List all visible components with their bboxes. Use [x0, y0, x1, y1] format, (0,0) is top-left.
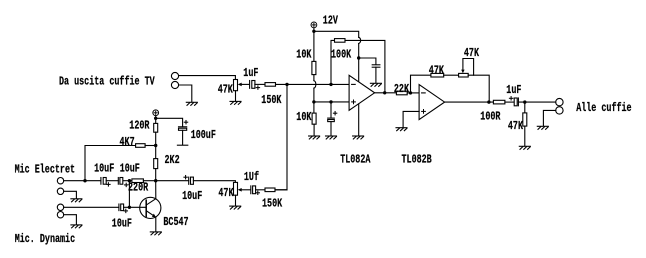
- wire C3 to ground: [330, 122, 332, 136]
- connector J1 (Da uscita cuffie TV, ground pin): [171, 81, 178, 88]
- wire P2 bottom to ground: [235, 195, 237, 205]
- node base-line top junction: [128, 179, 131, 182]
- svg-text:10uF: 10uF: [112, 217, 132, 231]
- capacitor C3 plates: [328, 117, 335, 119]
- ground (TV input): [186, 102, 197, 105]
- svg-text:220R: 220R: [128, 181, 149, 195]
- op-amp U1B plus sign: [422, 110, 426, 114]
- svg-text:47K: 47K: [429, 64, 445, 78]
- op-amp U1B TL082B triangle: [419, 85, 445, 120]
- wire hop exit to +ref node: [313, 88, 315, 102]
- connector J2 (Mic Electret, ground pin): [57, 188, 63, 194]
- svg-text:Mic. Dynamic: Mic. Dynamic: [15, 233, 75, 247]
- wire U1B non-inverting input to ground: [403, 111, 419, 127]
- svg-text:22K: 22K: [394, 83, 410, 97]
- ground (Q1 emitter): [150, 232, 161, 235]
- capacitor C1 1uF box plate: [252, 81, 255, 89]
- wire base drop: [128, 181, 130, 208]
- svg-text:1Uf: 1Uf: [244, 171, 259, 185]
- resistor R12 220R body: [132, 179, 144, 183]
- resistor R1 150K body: [265, 83, 276, 87]
- capacitor C2 decoupling plates: [372, 64, 380, 66]
- wire J2 ground pin down: [64, 191, 77, 198]
- svg-text:12V: 12V: [323, 14, 339, 28]
- node output junction: [523, 100, 526, 103]
- capacitor C6 box plate: [103, 178, 106, 185]
- wire summing node down to mic channel: [275, 84, 287, 189]
- capacitor C6 10uF (electret 1) thin plate: [100, 178, 102, 185]
- connector J4 (Alle cuffie, signal): [556, 98, 563, 105]
- transistor Q1 collector lead up to node: [155, 181, 157, 199]
- capacitor C9 10uF (collector out) plus sign: [184, 176, 187, 179]
- wire hop exit down to V+ node: [358, 44, 360, 59]
- wire U1A V- to ground: [358, 104, 360, 136]
- ground (C3): [326, 136, 337, 139]
- wire R10 to R11: [155, 132, 157, 158]
- node U1B output junction: [487, 100, 490, 103]
- node electret bias junction: [83, 179, 86, 182]
- wire C6 to C7: [106, 180, 118, 182]
- wire C4 to output connector: [518, 101, 555, 103]
- ground (R8): [519, 146, 530, 149]
- capacitor C9 box plate: [191, 177, 194, 184]
- connector J1 (Da uscita cuffie TV, signal): [171, 72, 178, 79]
- node ref bypass junction: [329, 100, 332, 103]
- svg-text:10uF: 10uF: [94, 162, 114, 176]
- svg-text:BC547: BC547: [163, 216, 188, 230]
- wire 100K right leg over to output: [345, 40, 385, 92]
- capacitor C4 1uF plus sign: [509, 97, 512, 100]
- resistor R5 22K body: [396, 91, 407, 95]
- svg-text:10K: 10K: [296, 48, 312, 62]
- resistor R3 10K lower body: [312, 113, 316, 124]
- capacitor C1 1uF (TV coupling), thin plate: [249, 81, 251, 89]
- ground (J4): [537, 126, 548, 129]
- wire C8 to transistor base: [124, 206, 146, 208]
- transistor Q1 emitter stroke: [147, 211, 156, 217]
- svg-text:10uF: 10uF: [120, 162, 140, 176]
- resistor R4 100K feedback body: [335, 39, 346, 43]
- connector J3 (Mic Dynamic, signal): [57, 204, 63, 210]
- wire C10 to R13: [256, 189, 265, 191]
- connector J4 (Alle cuffie, ground pin): [556, 107, 563, 114]
- transistor Q1 collector stroke: [147, 199, 156, 205]
- wire P3 wiper tied to right end: [463, 59, 474, 76]
- svg-text:47K: 47K: [218, 83, 234, 97]
- wire output node down to R8: [524, 102, 526, 113]
- resistor R2 10K upper body: [312, 61, 316, 74]
- wire R3 to ground: [313, 124, 315, 135]
- wire R7 to C4: [505, 101, 514, 103]
- node U1A output junction: [383, 91, 386, 94]
- wire R6 to P3: [444, 74, 459, 76]
- svg-text:4K7: 4K7: [120, 136, 135, 150]
- op-amp U1A TL082A triangle: [349, 75, 375, 110]
- wire R12 to collector node: [143, 180, 155, 182]
- capacitor C9 thin plate: [188, 177, 190, 184]
- resistor R8 47K body: [523, 113, 527, 126]
- capacitor C4 thin plate: [517, 98, 519, 106]
- svg-text:150K: 150K: [261, 94, 282, 108]
- wire C5 down to terminal bar: [182, 130, 184, 145]
- potentiometer P3 wiper arrow (down): [461, 70, 464, 74]
- wire C7 to base node: [123, 180, 132, 182]
- wire C1 to R1: [255, 83, 265, 85]
- wire J2 signal to coupling caps: [64, 180, 101, 182]
- wire R5 to U1B inverting input: [407, 92, 419, 94]
- wire R1 to op-amp U1A inverting input (summing node): [276, 83, 350, 85]
- op-amp U1A minus sign: [352, 83, 356, 85]
- node 100K left junction: [329, 83, 332, 86]
- resistor R10 120R body: [154, 123, 158, 132]
- wire bias 4K7 leg: [85, 146, 136, 181]
- capacitor C1 plus sign: [256, 86, 259, 89]
- ground (J2): [71, 199, 82, 202]
- transistor Q1 BC547 circle: [140, 197, 161, 218]
- wire +ref line to U1A non-inverting input: [314, 101, 349, 103]
- resistor R7 100R body: [493, 100, 505, 104]
- node +ref junction: [312, 100, 315, 103]
- svg-text:2K2: 2K2: [165, 154, 180, 168]
- capacitor C5 plates: [179, 126, 187, 128]
- capacitor C8 plus sign: [124, 209, 127, 212]
- wire collector node to C9: [156, 180, 189, 182]
- svg-text:47K: 47K: [508, 120, 524, 134]
- wire feedback up from inverting node: [411, 75, 431, 93]
- resistor R13 150K body: [265, 188, 275, 192]
- resistor R6 47K feedback body: [431, 73, 444, 77]
- svg-text:150K: 150K: [262, 197, 283, 211]
- node U1B inverting junction: [409, 91, 412, 94]
- wire hop (divider over inverting line): [314, 81, 316, 89]
- wire J1 signal to potentiometer P1 top: [179, 76, 236, 80]
- ground (R3): [309, 136, 320, 139]
- wire R9 to 120R/2K2 node: [145, 145, 156, 147]
- wire 100K left leg: [331, 40, 335, 84]
- resistor R9 4K7 body: [136, 144, 146, 148]
- wire 12V down to R2: [313, 28, 315, 62]
- potentiometer P1 47K body: [234, 80, 238, 91]
- svg-text:1uF: 1uF: [506, 84, 521, 98]
- node collector junction: [154, 179, 157, 182]
- wire U1A output: [375, 92, 397, 94]
- node R9/R10/R11 junction: [154, 144, 157, 147]
- capacitor C8 box plate: [121, 204, 124, 211]
- wire R8 to ground: [524, 126, 526, 146]
- svg-text:TL082B: TL082B: [402, 153, 432, 167]
- potentiometer P3 47K body: [459, 73, 469, 77]
- capacitor C3 ref bypass plus sign: [333, 112, 336, 115]
- svg-text:120R: 120R: [129, 119, 150, 133]
- connector J3 (Mic Dynamic, ground pin): [57, 212, 63, 218]
- wire V+ node to decoupling cap C2: [359, 58, 376, 65]
- capacitor C5 100uF plus sign: [184, 121, 187, 124]
- ground (C2): [370, 83, 381, 86]
- svg-text:Mic Electret: Mic Electret: [15, 163, 75, 177]
- svg-text:10uF: 10uF: [182, 190, 202, 204]
- supply +12V symbol (mic preamp): [153, 110, 159, 116]
- potentiometer P2 47K body: [234, 182, 238, 195]
- potentiometer P2 wiper arrow: [238, 188, 242, 192]
- resistor R11 2K2 body: [154, 159, 158, 169]
- svg-text:100uF: 100uF: [191, 129, 216, 143]
- svg-text:10K: 10K: [296, 111, 312, 125]
- wire J4 ground pin down: [543, 110, 555, 125]
- wire U1B output: [445, 101, 494, 103]
- svg-text:1uF: 1uF: [243, 67, 258, 81]
- node summing junction: [285, 83, 288, 86]
- wire node to C5 100uF: [156, 118, 183, 126]
- node V+ junction: [357, 56, 360, 59]
- wire R13 right to summing riser: [275, 189, 287, 191]
- svg-text:47K: 47K: [464, 47, 480, 61]
- ground (U1B +): [396, 128, 407, 131]
- capacitor C10 box plate: [253, 186, 256, 194]
- supply +12V symbol: [311, 22, 317, 28]
- wire 12V rail to U1A V+: [314, 31, 359, 37]
- wire C9 to P2 top: [193, 181, 235, 183]
- op-amp U1A plus sign: [352, 100, 356, 104]
- capacitor C7 10uF (electret 2) thin plate: [117, 178, 119, 185]
- node 120R top junction: [154, 117, 157, 120]
- ground (J3): [71, 225, 82, 228]
- svg-text:100R: 100R: [480, 110, 501, 124]
- capacitor C10 plus sign: [256, 191, 259, 194]
- transistor Q1 base bar: [145, 200, 147, 216]
- connector J2 (Mic Electret, signal): [57, 178, 63, 184]
- wire ref node down to C3: [330, 102, 332, 118]
- capacitor C7 plus sign: [125, 183, 128, 186]
- capacitor C7 box plate: [120, 178, 123, 185]
- transistor Q1 emitter arrow: [152, 214, 156, 218]
- wire +ref down to R3: [313, 102, 315, 113]
- capacitor C10 1Uf thin plate: [250, 186, 252, 194]
- wire C2 to ground: [375, 67, 377, 83]
- wire R11 down to collector node: [155, 169, 157, 181]
- wire supply down through 120R node: [155, 116, 157, 124]
- ground (C5 plain bar): [177, 144, 187, 146]
- op-amp U1B minus sign: [422, 92, 426, 94]
- capacitor C8 10uF (dynamic) thin plate: [118, 204, 120, 211]
- svg-text:47K: 47K: [218, 187, 234, 201]
- wire P1 bottom to ground: [235, 91, 237, 101]
- wire V+ node into op-amp U1A top: [358, 58, 360, 82]
- node base junction: [128, 206, 131, 209]
- potentiometer P1 wiper arrow: [238, 83, 242, 87]
- wire J3 ground pin down: [64, 215, 77, 225]
- transistor Q1 emitter lead: [155, 217, 157, 231]
- svg-text:TL082A: TL082A: [340, 153, 371, 167]
- node 12V rail junction: [312, 30, 315, 33]
- ground (P1): [230, 101, 241, 104]
- wire R2 down to hop: [313, 75, 315, 81]
- wire J1 ground pin down: [179, 85, 192, 102]
- wire J3 signal to C8: [64, 206, 119, 208]
- svg-text:Da uscita cuffie TV: Da uscita cuffie TV: [59, 75, 155, 89]
- capacitor C6 plus sign: [107, 183, 110, 186]
- ground (U1A V-): [353, 136, 364, 139]
- wire hop (12V drop over 100K feedback wire): [359, 37, 361, 43]
- capacitor C4 1uF box plate: [514, 98, 517, 106]
- wire P3 right end down to U1B output: [468, 75, 489, 102]
- svg-text:100K: 100K: [331, 48, 352, 62]
- ground (P2): [230, 206, 241, 209]
- svg-text:Alle cuffie: Alle cuffie: [576, 102, 631, 116]
